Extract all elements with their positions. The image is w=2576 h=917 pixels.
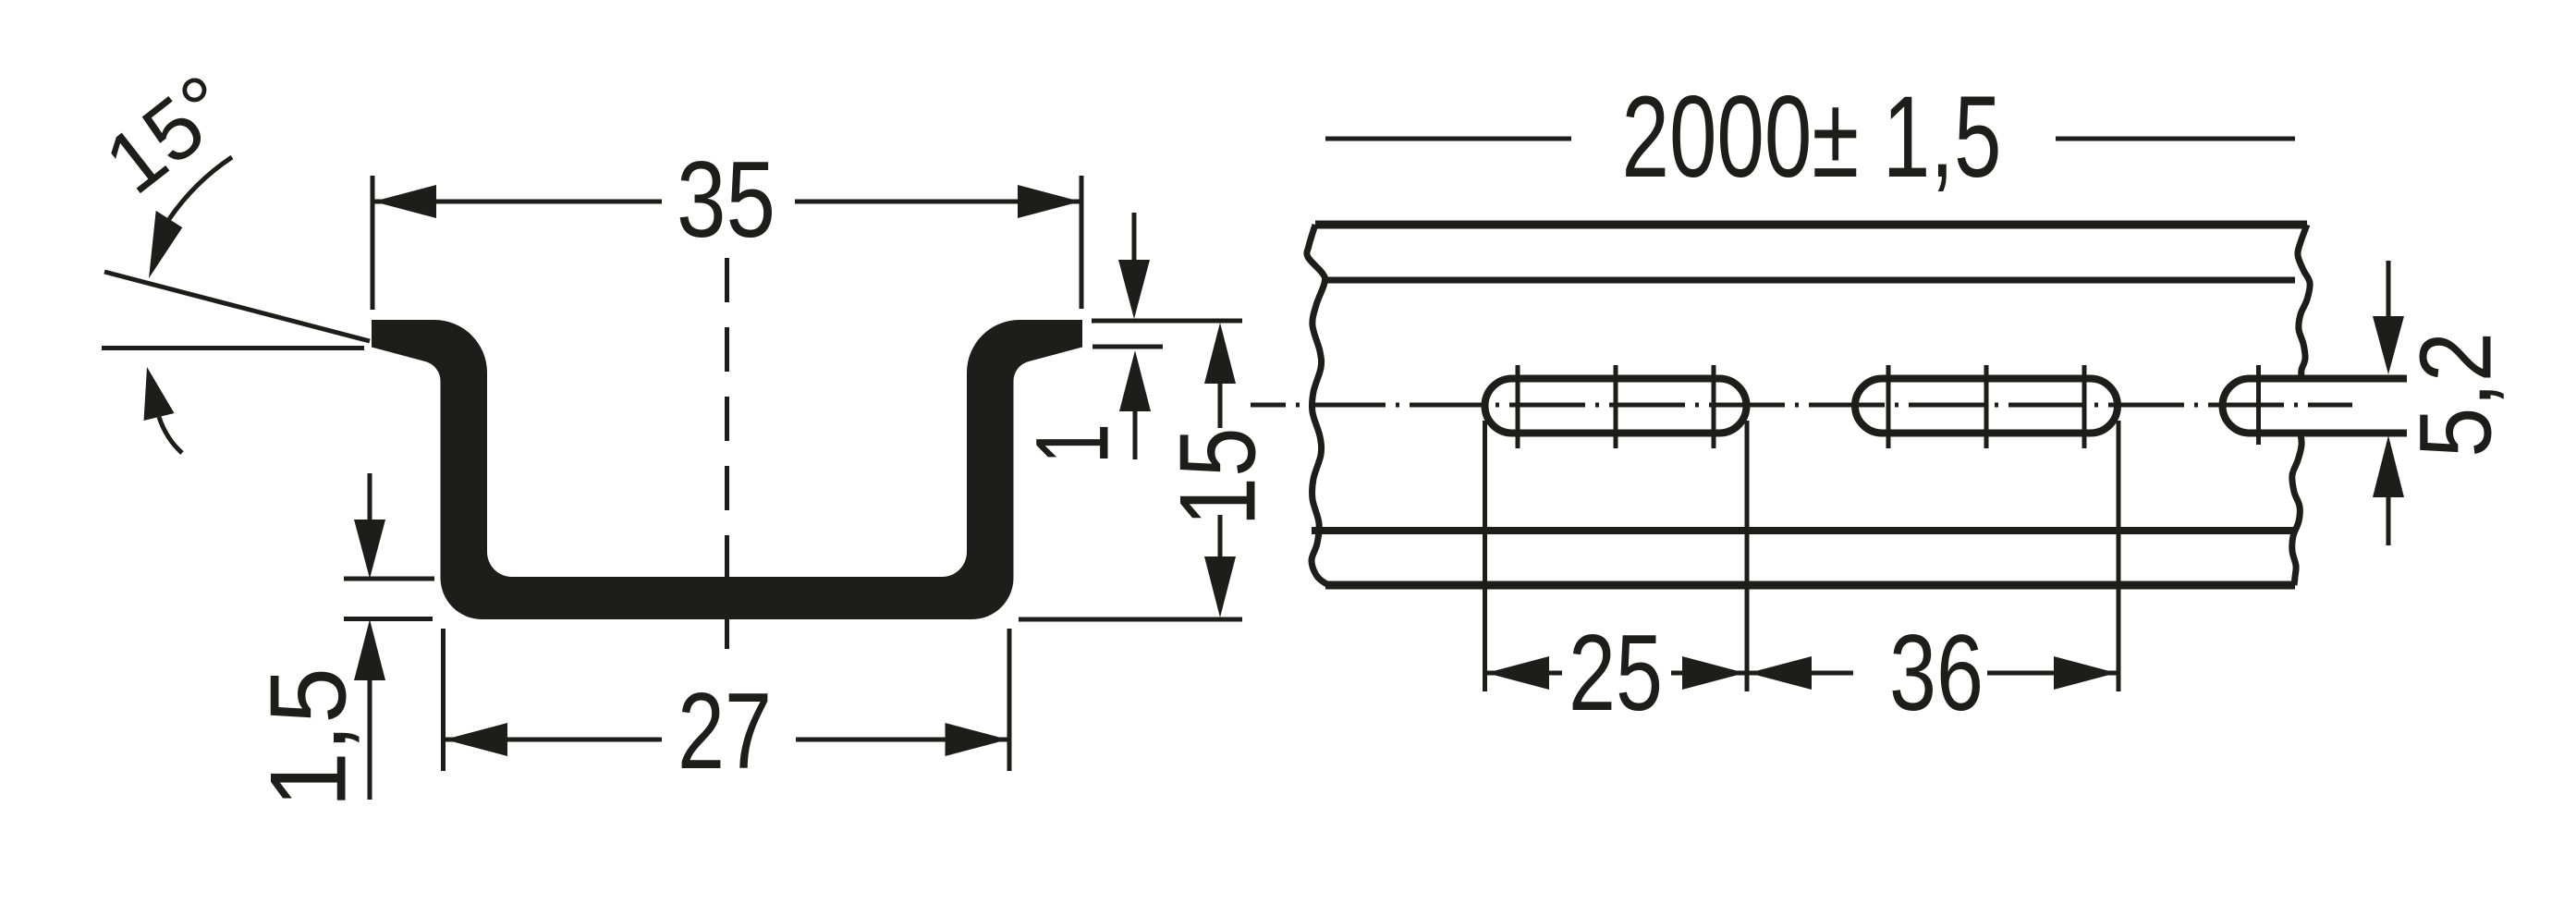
svg-text:15°: 15° — [88, 56, 250, 213]
right break squiggle lower — [2292, 434, 2301, 585]
slot 3 tick — [2256, 365, 2261, 445]
dimension 35 — [371, 176, 375, 310]
slot 2 — [1855, 379, 2118, 434]
svg-text:15: 15 — [1157, 428, 1278, 527]
15-degree slope line — [104, 272, 370, 341]
angle arc upper with arrowhead — [169, 157, 232, 219]
left break squiggle — [1307, 225, 1333, 585]
slot 1 ticks — [1516, 365, 1520, 448]
dimension 15 (rail height) — [1019, 617, 1242, 622]
slots centerline dash-dot — [1251, 403, 2352, 408]
dimension 1 (lip thickness) — [1092, 319, 1242, 324]
svg-text:5,2: 5,2 — [2399, 332, 2513, 458]
svg-text:36: 36 — [1889, 612, 1984, 733]
slot 1 — [1485, 379, 1747, 434]
horizontal reference line — [102, 346, 364, 350]
svg-text:1: 1 — [1015, 423, 1130, 464]
svg-text:27: 27 — [678, 670, 772, 791]
dimension 1,5 (web thickness) — [344, 577, 434, 581]
section vertical centerline — [725, 258, 729, 666]
DIN rail cross-section profile — [372, 320, 1082, 619]
dimension 2000 +/- 1,5 — [1325, 137, 1571, 141]
svg-text:2000± 1,5: 2000± 1,5 — [1622, 73, 2002, 202]
dimension 36 (slot pitch) — [2117, 421, 2121, 691]
svg-text:25: 25 — [1569, 612, 1663, 733]
dimension 5,2 (slot width) — [2387, 261, 2391, 318]
dimension 27 (inner width) — [441, 629, 446, 771]
rail bottom edge — [1325, 581, 2295, 590]
rail lower fold line — [1312, 527, 2294, 534]
slot 2 ticks — [1886, 365, 1891, 448]
svg-text:35: 35 — [677, 139, 775, 260]
rail top edge — [1315, 221, 2307, 229]
svg-text:1,5: 1,5 — [248, 667, 369, 808]
rail fold line — [1322, 277, 2295, 284]
right break squiggle upper — [2298, 225, 2310, 377]
dimension 25 (slot length) — [1483, 421, 1487, 691]
angle arc lower with arrowhead — [159, 417, 182, 453]
slot 3 partial at break — [2223, 379, 2408, 434]
